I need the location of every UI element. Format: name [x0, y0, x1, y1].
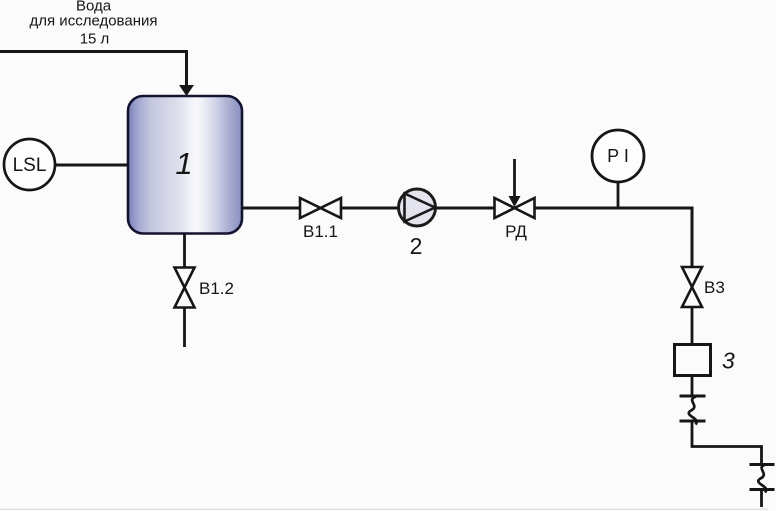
wire: unit 3 to hose	[691, 376, 694, 398]
svg-text:15 л: 15 л	[80, 31, 110, 48]
wire: control valve to right corner	[535, 207, 693, 210]
svg-text:В1.2: В1.2	[199, 279, 234, 298]
svg-text:для исследования: для исследования	[30, 13, 158, 30]
control valve RD	[495, 198, 535, 218]
pump 2	[399, 189, 436, 226]
svg-text:В1.1: В1.1	[303, 222, 338, 241]
valve B3	[682, 267, 702, 307]
svg-text:3: 3	[722, 348, 735, 374]
svg-text:РД: РД	[505, 222, 527, 241]
hose connector 2	[750, 465, 775, 493]
wire: valve B1.1 to pump	[341, 207, 399, 210]
actuator arrow into valve RD	[513, 159, 516, 197]
valve B1.2	[175, 268, 195, 308]
tank 1	[128, 96, 242, 234]
page bottom edge shading	[0, 509, 768, 511]
wire: right vertical drop	[691, 207, 694, 269]
svg-text:1: 1	[175, 146, 192, 181]
svg-text:2: 2	[410, 233, 423, 259]
wire: valve B3 to unit 3	[691, 307, 694, 345]
wire: LSL to tank	[55, 164, 128, 167]
svg-text:P I: P I	[607, 146, 629, 166]
wire: tank bottom drain	[183, 234, 186, 269]
wire: inlet feed line into tank	[0, 52, 187, 87]
svg-text:В3: В3	[704, 278, 725, 297]
wire: tank to valve B1.1	[242, 207, 300, 210]
unit 3 box	[675, 345, 711, 376]
wire: hose 1 down and over	[692, 421, 762, 465]
label: inlet water text	[30, 0, 158, 48]
instrument LSL	[4, 139, 55, 190]
hose connector 1	[680, 396, 706, 425]
wire: outlet	[760, 490, 763, 508]
valve B1.1	[300, 198, 341, 218]
wire: PI stem	[617, 182, 620, 208]
wire: drain outlet	[183, 308, 186, 348]
arrowhead into tank top	[179, 85, 194, 96]
svg-text:LSL: LSL	[13, 155, 47, 176]
wire: pump to control valve	[436, 207, 496, 210]
instrument PI	[592, 130, 644, 182]
